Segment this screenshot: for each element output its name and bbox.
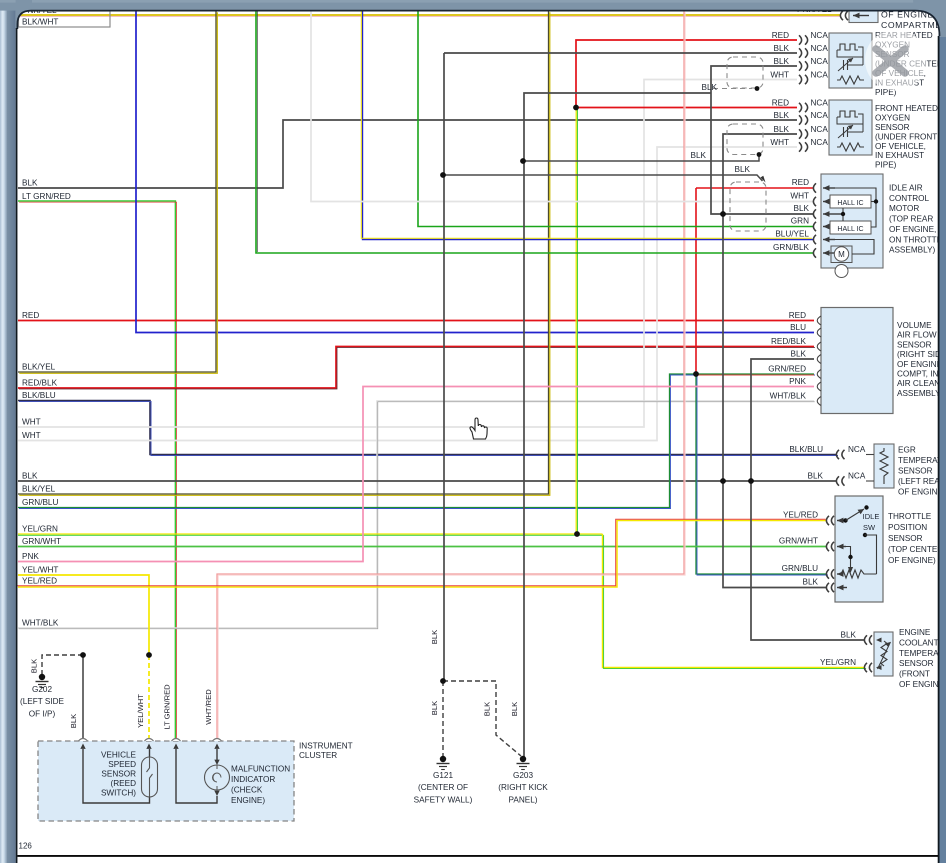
wire BLK drain front O2 shield — [523, 155, 759, 162]
wire RED to front O2 sensor — [576, 107, 797, 109]
svg-text:LT GRN/RED: LT GRN/RED — [163, 684, 172, 730]
wire PNK to VAF sensor — [18, 387, 814, 562]
wire RED into IAC motor — [696, 187, 813, 189]
wire WHT to IAC motor — [311, 11, 813, 202]
svg-text:BLK: BLK — [22, 179, 38, 188]
corner patch top-right — [913, 0, 946, 37]
symbol circle below IAC — [835, 265, 848, 278]
svg-text:ENGINE: ENGINE — [899, 628, 931, 637]
svg-text:WHT/BLK: WHT/BLK — [770, 392, 807, 401]
wire IAC interior — [835, 188, 876, 227]
wire YEL/WHT dashed to cluster — [148, 655, 150, 741]
svg-text:BLK: BLK — [774, 125, 790, 134]
svg-text:VOLUME: VOLUME — [897, 321, 932, 330]
wire BLK/YEL 1 — [18, 11, 216, 372]
svg-text:BLK: BLK — [691, 151, 707, 160]
svg-text:THROTTLE: THROTTLE — [888, 512, 932, 521]
svg-text:NCA: NCA — [811, 31, 829, 40]
cursor hand pointer — [470, 418, 487, 439]
svg-text:ASSEMBLY): ASSEMBLY) — [889, 246, 936, 255]
wire BLK cluster to G202 — [82, 655, 84, 741]
watermark X — [876, 49, 905, 73]
wire BLU/YEL to IAC motor — [363, 11, 814, 240]
svg-text:RED: RED — [22, 311, 39, 320]
svg-text:SENSOR: SENSOR — [899, 659, 934, 668]
top bar — [0, 0, 946, 11]
ground G202 — [39, 674, 45, 680]
svg-text:G202: G202 — [32, 685, 52, 694]
svg-text:(LEFT SIDE: (LEFT SIDE — [20, 697, 65, 706]
svg-text:NCA: NCA — [811, 71, 829, 80]
junction BLK drain — [520, 158, 526, 164]
component rear heated oxygen sensor — [829, 33, 872, 88]
svg-text:EGR: EGR — [898, 446, 916, 455]
wire BLU to VAF sensor — [136, 11, 814, 333]
svg-text:RED: RED — [772, 99, 789, 108]
svg-text:PIPE): PIPE) — [875, 161, 897, 170]
svg-text:BLK: BLK — [430, 630, 439, 644]
symbol potentiometer TPS — [837, 546, 846, 548]
svg-text:RED/BLK: RED/BLK — [22, 379, 58, 388]
svg-text:(UNDER FRONT: (UNDER FRONT — [875, 132, 937, 141]
svg-text:G203: G203 — [513, 771, 533, 780]
svg-text:OXYGEN: OXYGEN — [875, 113, 910, 122]
symbol resistor front O2 — [837, 143, 864, 151]
bottom border — [17, 855, 938, 857]
shield drain junction rear O2 — [755, 86, 760, 91]
symbol square wave rear O2 — [837, 44, 858, 50]
svg-text:BLK: BLK — [483, 702, 492, 716]
svg-text:YEL/RED: YEL/RED — [783, 511, 818, 520]
svg-text:BLK: BLK — [510, 702, 519, 716]
svg-text:BLK: BLK — [841, 631, 857, 640]
svg-text:GRN/BLU: GRN/BLU — [22, 498, 58, 507]
svg-text:PNK: PNK — [789, 377, 806, 386]
svg-text:GRN/BLK: GRN/BLK — [773, 243, 809, 252]
svg-text:SENSOR: SENSOR — [101, 770, 136, 779]
symbol motor M IAC — [831, 246, 852, 263]
component throttle position sensor — [835, 496, 883, 602]
ground G203 — [520, 756, 526, 762]
svg-text:PANEL): PANEL) — [509, 796, 538, 805]
svg-text:PNK: PNK — [22, 552, 39, 561]
symbol variable capacitor rear O2 — [843, 60, 845, 70]
svg-text:NCA: NCA — [811, 111, 829, 120]
svg-text:WHT/RED: WHT/RED — [204, 689, 213, 725]
svg-text:COOLANT: COOLANT — [899, 638, 939, 647]
ground G121 — [440, 756, 446, 762]
shield drain junction front O2 — [757, 152, 762, 157]
svg-text:BLK: BLK — [774, 111, 790, 120]
svg-text:POSITION: POSITION — [888, 523, 927, 532]
wire YEL/GRN to ECT sensor — [603, 534, 866, 668]
component EGR temperature sensor — [874, 444, 894, 488]
splice GRN/RED / RED / GRN-BLU — [693, 371, 699, 377]
svg-text:BLK: BLK — [774, 57, 790, 66]
wire BLK to front O2 sensor — [18, 120, 797, 188]
svg-text:YEL/WHT: YEL/WHT — [22, 566, 58, 575]
wire RED from IAC motor to splice — [695, 188, 697, 374]
component instrument cluster — [38, 741, 294, 821]
junction BLK drain — [440, 172, 446, 178]
wire GRN/RED red stripe — [696, 374, 814, 376]
wire WHT/BLK to VAF sensor — [18, 401, 814, 628]
svg-text:GRN: GRN — [791, 217, 809, 226]
junction BLK IAC — [720, 211, 726, 217]
svg-text:RED: RED — [789, 311, 806, 320]
component front heated oxygen sensor — [829, 100, 872, 155]
wire BLK dashed to G121 — [442, 681, 444, 757]
svg-text:WHT/BLK: WHT/BLK — [22, 619, 59, 628]
svg-text:BLU: BLU — [790, 323, 806, 332]
svg-text:SPEED: SPEED — [108, 760, 136, 769]
svg-text:OF ENGINE,: OF ENGINE, — [889, 225, 936, 234]
wire GRN/BLU to splice — [18, 374, 814, 508]
svg-text:IDLE: IDLE — [863, 512, 880, 521]
shield front O2 sensor — [727, 124, 763, 155]
svg-text:MOTOR: MOTOR — [889, 204, 919, 213]
svg-text:OF ENGINE: OF ENGINE — [897, 360, 943, 369]
wire BLK/WHT label loop — [19, 11, 111, 27]
svg-text:SENSOR: SENSOR — [875, 123, 910, 132]
svg-text:BLK/BLU: BLK/BLU — [22, 391, 56, 400]
svg-text:NCA: NCA — [848, 472, 866, 481]
symbol idle switch TPS — [837, 520, 845, 522]
svg-text:YEL/RED: YEL/RED — [22, 577, 57, 586]
svg-text:AIR FLOW: AIR FLOW — [897, 331, 937, 340]
svg-text:(REED: (REED — [111, 779, 137, 788]
wire BLK shielded front O2 / IAC / TPS — [723, 134, 827, 588]
svg-text:MALFUNCTION: MALFUNCTION — [231, 765, 290, 774]
svg-text:NCA: NCA — [811, 57, 829, 66]
svg-text:BLK: BLK — [22, 472, 38, 481]
wire YEL/GRN horizontal — [18, 533, 603, 535]
svg-text:BLK/WHT: BLK/WHT — [22, 18, 58, 27]
wire BLK into IAC motor — [723, 213, 813, 215]
wire RED/BLK to VAF sensor — [18, 347, 814, 389]
canvas outline — [17, 11, 939, 36]
svg-text:(FRONT: (FRONT — [899, 670, 930, 679]
junction YEL/WHT — [146, 652, 152, 658]
symbol MIL lamp — [205, 765, 230, 790]
svg-text:BLK: BLK — [774, 44, 790, 53]
symbol thermistor ECT — [881, 641, 887, 666]
wire BLK/BLU to EGR temp sensor — [18, 401, 837, 455]
wire BLK VAF / ECT sensor — [751, 359, 865, 640]
symbol square wave front O2 — [837, 111, 858, 117]
shield IAC motor wires — [730, 182, 766, 231]
corner patch top-left — [16, 0, 32, 29]
junction BLK G202 — [80, 652, 86, 658]
svg-text:FRONT HEATED: FRONT HEATED — [875, 104, 938, 113]
svg-text:NCA: NCA — [811, 99, 829, 108]
svg-text:INDICATOR: INDICATOR — [231, 775, 275, 784]
svg-text:BLK: BLK — [791, 350, 807, 359]
symbol variable capacitor front O2 — [843, 127, 845, 137]
svg-text:ON THROTTLE: ON THROTTLE — [889, 235, 946, 244]
svg-text:BLK: BLK — [430, 701, 439, 715]
svg-text:(CENTER OF: (CENTER OF — [418, 783, 468, 792]
wire RED to rear O2 sensor — [576, 40, 797, 108]
svg-text:BLK: BLK — [808, 472, 824, 481]
wire VSS interior — [83, 749, 150, 803]
svg-text:BLK/BLU: BLK/BLU — [789, 445, 823, 454]
wire BLK drain IAC shield — [443, 175, 763, 181]
svg-text:GRN/RED: GRN/RED — [768, 365, 806, 374]
svg-text:CLUSTER: CLUSTER — [299, 751, 337, 760]
wire BLK dashed to G202 — [42, 655, 83, 674]
svg-text:BLK: BLK — [702, 83, 718, 92]
junction BLK ECT branch — [748, 478, 754, 484]
svg-text:YEL/WHT: YEL/WHT — [136, 694, 145, 728]
symbol resistor EGR — [880, 448, 888, 484]
junction BLK grounds — [440, 678, 446, 684]
wire BLK ground bus to EGR — [18, 480, 837, 482]
svg-text:YEL/GRN: YEL/GRN — [22, 525, 58, 534]
wire GRN to IAC motor — [418, 11, 813, 227]
svg-text:GRN/WHT: GRN/WHT — [779, 537, 818, 546]
svg-text:BLK: BLK — [735, 165, 751, 174]
wire MIL interior — [216, 749, 218, 762]
right border band — [939, 0, 946, 863]
svg-text:HALL IC: HALL IC — [837, 200, 863, 207]
svg-text:SENSOR: SENSOR — [897, 340, 932, 349]
svg-text:126: 126 — [19, 842, 33, 851]
svg-text:SAFETY WALL): SAFETY WALL) — [414, 796, 473, 805]
svg-text:(TOP CENTER: (TOP CENTER — [888, 545, 943, 554]
symbol resistor rear O2 — [837, 76, 864, 84]
wire YEL/GRN vertical — [575, 108, 577, 534]
symbol reed switch VSS — [142, 757, 158, 797]
wire BLK/YEL 2 — [18, 11, 549, 494]
svg-text:IN EXHAUST: IN EXHAUST — [875, 151, 924, 160]
component idle air control motor — [821, 174, 883, 268]
svg-text:WHT: WHT — [790, 192, 809, 201]
wire BLK rear O2 sensor — [444, 52, 797, 54]
svg-text:NCA: NCA — [848, 445, 866, 454]
wire WHT/RED to cluster — [217, 11, 684, 741]
svg-text:BLK: BLK — [30, 659, 39, 673]
svg-text:SENSOR: SENSOR — [898, 467, 933, 476]
wire GRN/WHT to TPS — [18, 546, 827, 548]
svg-text:G121: G121 — [433, 771, 453, 780]
shield rear O2 sensor — [727, 57, 763, 88]
junction IAC BLK interior — [841, 212, 845, 216]
svg-text:RED: RED — [792, 178, 809, 187]
wire YEL/RED to TPS — [18, 521, 827, 588]
svg-text:BLK: BLK — [803, 578, 819, 587]
junction IAC interior — [874, 199, 878, 203]
component volume air flow sensor — [821, 308, 893, 414]
component engine coolant temperature sensor — [874, 632, 893, 676]
svg-text:M: M — [838, 250, 845, 259]
svg-text:IDLE AIR: IDLE AIR — [889, 184, 923, 193]
svg-text:SW: SW — [863, 523, 876, 532]
wire BLK vertical to G121 — [443, 53, 445, 681]
wire WHT to rear O2 sensor — [18, 80, 797, 428]
junction BLK TPS branch — [720, 478, 726, 484]
svg-text:CONTROL: CONTROL — [889, 194, 929, 203]
svg-text:BLK/YEL: BLK/YEL — [22, 485, 56, 494]
svg-text:NCA: NCA — [811, 125, 829, 134]
left scroll strip — [0, 0, 7, 863]
symbol HALL IC 1 — [830, 195, 871, 208]
svg-text:COMPT, IN: COMPT, IN — [897, 370, 938, 379]
svg-text:VEHICLE: VEHICLE — [101, 751, 137, 760]
wire LT GRN/RED to instrument cluster — [18, 201, 175, 741]
svg-text:WHT: WHT — [22, 418, 41, 427]
svg-text:(CHECK: (CHECK — [231, 786, 263, 795]
watermark circle — [865, 29, 927, 91]
svg-text:GRN/BLU: GRN/BLU — [782, 564, 818, 573]
svg-text:OF ENGINE): OF ENGINE) — [888, 556, 936, 565]
svg-text:ASSEMBLY): ASSEMBLY) — [897, 389, 944, 398]
svg-text:LT GRN/RED: LT GRN/RED — [22, 192, 71, 201]
svg-text:GRN/WHT: GRN/WHT — [22, 537, 61, 546]
wire BLK to G203 — [524, 93, 711, 758]
svg-text:NCA: NCA — [811, 44, 829, 53]
splice YEL/GRN — [574, 531, 580, 537]
svg-text:ENGINE): ENGINE) — [231, 796, 265, 805]
wire PNK/YEL top horizontal — [18, 14, 841, 16]
svg-text:OF I/P): OF I/P) — [29, 710, 56, 719]
wire BLK shielded rear O2 — [711, 66, 797, 214]
wire GRN/BLU to TPS — [696, 374, 827, 574]
svg-text:WHT: WHT — [770, 71, 789, 80]
wire BLK dashed to G203 — [443, 681, 521, 756]
svg-text:SWITCH): SWITCH) — [101, 789, 136, 798]
svg-text:(TOP REAR: (TOP REAR — [889, 215, 933, 224]
svg-text:OF VEHICLE,: OF VEHICLE, — [875, 142, 926, 151]
wire YEL/WHT — [18, 575, 149, 655]
wire WHT to front O2 sensor — [18, 147, 797, 441]
svg-text:BLK/YEL: BLK/YEL — [22, 363, 56, 372]
svg-text:HALL IC: HALL IC — [837, 226, 863, 233]
svg-text:WHT: WHT — [770, 138, 789, 147]
svg-text:RED: RED — [772, 31, 789, 40]
svg-text:NCA: NCA — [811, 138, 829, 147]
svg-text:WHT: WHT — [22, 431, 41, 440]
wire GRN/BLK to IAC motor — [256, 11, 813, 253]
svg-text:(RIGHT KICK: (RIGHT KICK — [498, 783, 548, 792]
svg-text:INSTRUMENT: INSTRUMENT — [299, 742, 353, 751]
connector engine compartment — [840, 11, 843, 20]
svg-text:SENSOR: SENSOR — [888, 534, 923, 543]
symbol HALL IC 2 — [830, 221, 871, 234]
svg-text:BLU/YEL: BLU/YEL — [775, 230, 809, 239]
splice RED / YEL-GRN — [573, 105, 579, 111]
svg-text:RED/BLK: RED/BLK — [771, 337, 807, 346]
svg-text:YEL/GRN: YEL/GRN — [820, 658, 856, 667]
svg-text:BLK: BLK — [794, 204, 810, 213]
svg-text:BLK: BLK — [69, 714, 78, 728]
wire RED to VAF sensor — [18, 320, 814, 322]
